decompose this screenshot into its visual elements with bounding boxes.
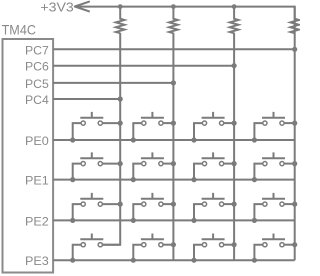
wire: column 3 vertical line down to row PE3	[233, 33, 235, 260]
switch S12 (row PE2, column 4) push button	[254, 193, 294, 221]
pin label PC6	[25, 60, 49, 74]
pin label PC7	[25, 43, 49, 57]
node: column junction PE0 cell 4	[292, 121, 297, 126]
svg-text:PC7: PC7	[25, 43, 49, 57]
pin label PC5	[25, 77, 49, 91]
node: row junction PE1 cell 4	[252, 177, 257, 182]
power symbol +3V3	[40, 0, 89, 14]
node: column junction PE1 cell 3	[232, 161, 237, 166]
switch S14 (row PE3, column 2) push button	[133, 234, 173, 261]
node: column junction PE1 cell 1	[118, 161, 123, 166]
node: row junction PE3 cell 1	[70, 258, 75, 263]
node: rail junction column 3	[232, 4, 237, 9]
switch S15 (row PE3, column 3) push button	[194, 234, 234, 261]
pull-up resistor R2 on column 2	[169, 7, 178, 34]
wire: +3V3 rail across top, bending down into column 4	[76, 7, 295, 261]
switch S16 (row PE3, column 4) push button	[254, 234, 294, 261]
node: column junction PE0 cell 1	[118, 121, 123, 126]
node: rail junction column 2	[171, 4, 176, 9]
node: row junction PE3 cell 2	[131, 258, 136, 263]
switch S7 (row PE1, column 3) push button	[194, 152, 234, 179]
svg-text:PE3: PE3	[25, 254, 49, 268]
node: column junction PE0 cell 3	[232, 121, 237, 126]
node: row junction PE0 cell 4	[252, 137, 257, 142]
pull-up resistor R1 on column 1	[116, 7, 125, 34]
svg-text:+3V3: +3V3	[40, 0, 73, 14]
node: row junction PE3 cell 3	[191, 258, 196, 263]
svg-text:PE2: PE2	[25, 214, 49, 228]
switch S10 (row PE2, column 2) push button	[133, 193, 173, 221]
svg-text:PC4: PC4	[25, 93, 49, 107]
node: column junction PE0 cell 2	[171, 121, 176, 126]
switch S9 (row PE2, column 1) push button	[73, 193, 121, 221]
node: row junction PE3 cell 4	[252, 258, 257, 263]
svg-text:PC5: PC5	[25, 77, 49, 91]
node: column junction PE2 cell 2	[171, 202, 176, 207]
wire: column 2 vertical line down to row PE3	[172, 33, 174, 260]
node: row junction PE2 cell 1	[70, 218, 75, 223]
switch S1 (row PE0, column 1) push button	[73, 112, 121, 140]
pin label PE3	[25, 254, 49, 268]
pull-up resistor R3 on column 3	[230, 7, 239, 34]
wire: column 1 vertical line ending at bottom row button	[102, 33, 120, 245]
microcontroller U1 TM4C box	[2, 22, 54, 272]
node: row junction PE0 cell 2	[131, 137, 136, 142]
pin label PE1	[25, 174, 49, 188]
switch S4 (row PE0, column 4) push button	[254, 112, 294, 140]
switch S11 (row PE2, column 3) push button	[194, 193, 234, 221]
node: row junction PE0 cell 1	[70, 137, 75, 142]
node: column junction PE3 cell 2	[171, 242, 176, 247]
wire: row PE1 horizontal line	[53, 179, 295, 181]
switch S8 (row PE1, column 4) push button	[254, 152, 294, 179]
wire: row PE2 horizontal line	[53, 219, 295, 221]
node: row junction PE2 cell 4	[252, 218, 257, 223]
svg-text:TM4C: TM4C	[2, 22, 36, 37]
wire: pin PC7 to column 4	[53, 47, 297, 52]
node: row junction PE1 cell 2	[131, 177, 136, 182]
svg-text:PE0: PE0	[25, 134, 49, 148]
node: row junction PE2 cell 3	[191, 218, 196, 223]
wire: pin PC6 to column 3	[53, 63, 237, 68]
pin label PE0	[25, 134, 49, 148]
node: column junction PE2 cell 1	[118, 202, 123, 207]
switch S2 (row PE0, column 2) push button	[133, 112, 173, 140]
node: column junction PE3 cell 3	[232, 242, 237, 247]
node: column junction PE1 cell 4	[292, 161, 297, 166]
wire: row PE3 horizontal line	[53, 259, 295, 261]
node: column junction PE2 cell 4	[292, 202, 297, 207]
pin label PE2	[25, 214, 49, 228]
node: row junction PE1 cell 1	[70, 177, 75, 182]
svg-text:PC6: PC6	[25, 60, 49, 74]
pull-up resistor R4 on column 4	[290, 7, 299, 34]
svg-text:PE1: PE1	[25, 174, 49, 188]
node: rail junction column 1	[118, 4, 123, 9]
switch S6 (row PE1, column 2) push button	[133, 152, 173, 179]
node: row junction PE0 cell 3	[191, 137, 196, 142]
node: row junction PE2 cell 2	[131, 218, 136, 223]
pin label PC4	[25, 93, 49, 107]
wire: row PE0 horizontal line	[53, 139, 295, 141]
switch S13 (row PE3, column 1) push button	[73, 234, 121, 261]
switch S3 (row PE0, column 3) push button	[194, 112, 234, 140]
switch S5 (row PE1, column 1) push button	[73, 152, 121, 179]
node: column junction PE2 cell 3	[232, 202, 237, 207]
node: row junction PE1 cell 3	[191, 177, 196, 182]
wire: pin PC4 to column 1	[53, 96, 123, 101]
wire: pin PC5 to column 2	[53, 80, 176, 85]
node: column junction PE1 cell 2	[171, 161, 176, 166]
node: column junction PE3 cell 4	[292, 242, 297, 247]
